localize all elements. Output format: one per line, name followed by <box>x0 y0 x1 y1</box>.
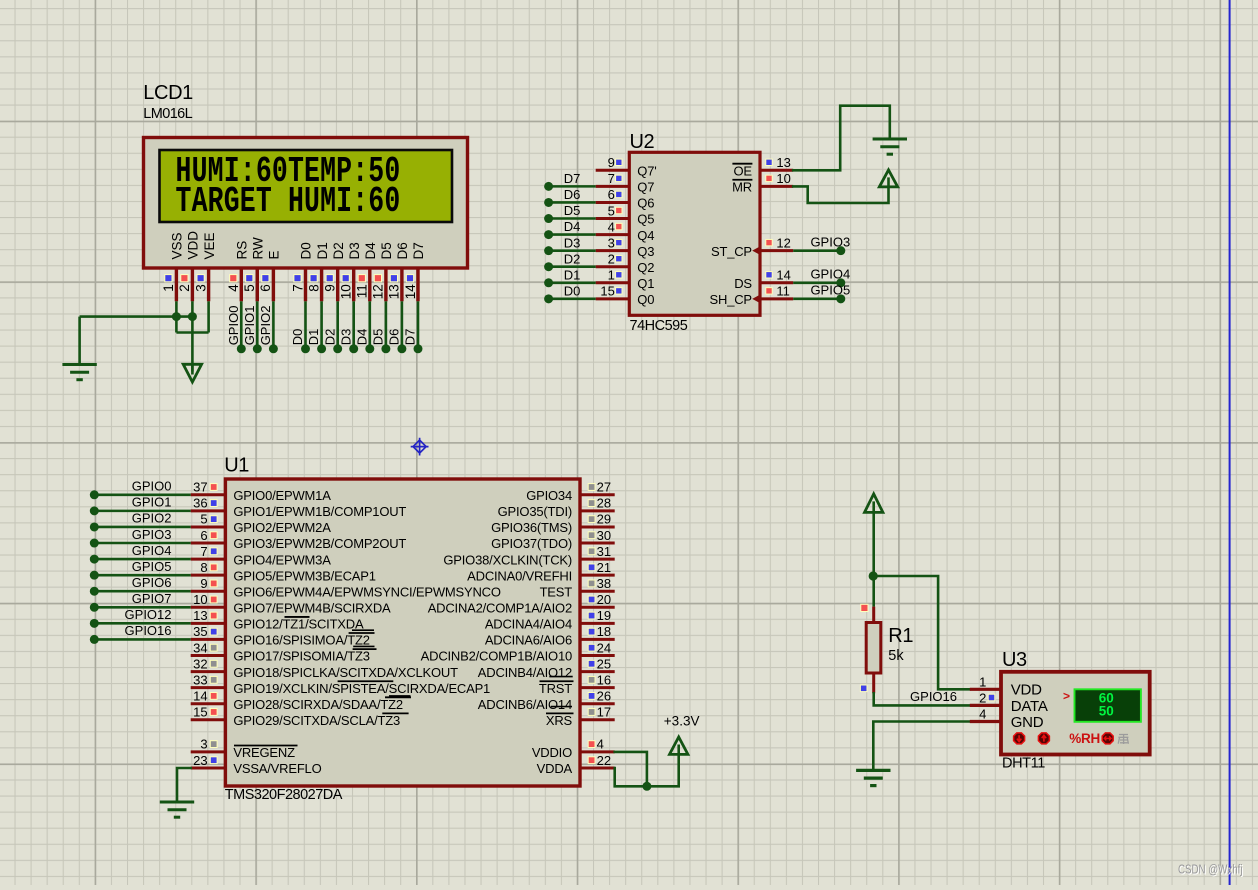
svg-text:>: > <box>1063 689 1070 703</box>
LCD1 pin 9 indicator square <box>326 275 333 282</box>
ground symbol (U2 OE) <box>873 138 907 141</box>
wire end dot D4 <box>544 230 553 239</box>
wire LCD1 VDD pin2 down to power arrow <box>191 301 194 371</box>
wire end dot D3 <box>544 246 553 255</box>
wire end dot GPIO0 <box>90 490 99 499</box>
svg-text:SH_CP: SH_CP <box>710 292 752 307</box>
svg-text:28: 28 <box>597 496 611 511</box>
U1 overline echo mark <box>353 645 374 647</box>
wire LCD1 VSS pin1 down <box>175 301 178 332</box>
svg-text:D1: D1 <box>315 242 330 259</box>
U2 pin 6 (Q6) stub <box>596 201 630 204</box>
svg-text:Q4: Q4 <box>637 228 654 243</box>
U2 pin 5 indicator square <box>616 207 622 213</box>
LCD1 pin 3 indicator square <box>197 275 204 282</box>
svg-text:10: 10 <box>339 284 354 299</box>
svg-text:13: 13 <box>387 284 402 299</box>
U1 pin 5 (GPIO2/EPWM2A) stub <box>191 525 226 528</box>
wire end dot D6 <box>544 198 553 207</box>
svg-text:GPIO1: GPIO1 <box>132 495 172 510</box>
LCD1 screen text line 1 <box>176 153 401 193</box>
U2 pin 13 indicator square <box>766 159 772 165</box>
LCD1 pin 10 indicator square <box>342 275 349 282</box>
wire power to R1 <box>872 512 875 576</box>
svg-text:ADCINB2/COMP1B/AIO10: ADCINB2/COMP1B/AIO10 <box>421 649 572 664</box>
svg-text:22: 22 <box>597 753 611 768</box>
U1 pin 22 (VDDA) stub <box>580 766 615 769</box>
wire D2 to U2 <box>549 265 596 268</box>
U1 pin 26 (ADCINB6/AIO14) stub <box>580 702 615 705</box>
svg-text:GPIO3: GPIO3 <box>132 527 172 542</box>
svg-text:GPIO29/SCITXDA/SCLA/TZ3: GPIO29/SCITXDA/SCLA/TZ3 <box>233 713 400 728</box>
svg-text:RW: RW <box>251 237 266 260</box>
U1 pin 14 (GPIO28/SCIRXDA/SDAA/TZ2) stub <box>191 702 226 705</box>
U1 overline echo mark <box>389 695 411 697</box>
svg-text:GPIO3/EPWM2B/COMP2OUT: GPIO3/EPWM2B/COMP2OUT <box>233 536 406 551</box>
U2 pin 3 indicator square <box>616 239 622 245</box>
svg-text:26: 26 <box>597 689 611 704</box>
svg-text:6: 6 <box>258 284 273 292</box>
svg-text:VDDA: VDDA <box>537 761 573 776</box>
U2 pin 15 indicator square <box>616 288 622 294</box>
U2 pin 7 indicator square <box>616 175 622 181</box>
svg-text:TMS320F28027DA: TMS320F28027DA <box>225 787 343 803</box>
wire from LCD1 pin 4 <box>240 301 243 349</box>
U1 pin 28 (GPIO35(TDI)) stub <box>580 509 615 512</box>
U1 pin 27 (GPIO34) stub <box>580 493 615 496</box>
svg-text:3: 3 <box>608 235 615 250</box>
U1 pin 37 (GPIO0/EPWM1A) stub <box>191 493 226 496</box>
svg-text:TARGET HUMI:60: TARGET HUMI:60 <box>176 183 401 223</box>
U1 pin 10 (GPIO7/EPWM4B/SCIRXDA) stub <box>191 606 226 609</box>
LCD1 pin 6 (E) stub <box>272 268 275 301</box>
U3 button down <box>1014 733 1025 744</box>
svg-text:20: 20 <box>597 592 611 607</box>
U2 pin 9 (Q7') stub <box>596 169 630 172</box>
U1 pin 13 indicator square <box>210 612 217 619</box>
U1 pin 38 indicator square <box>588 580 595 587</box>
svg-text:D7: D7 <box>411 242 426 259</box>
U1 pin 9 indicator square <box>210 580 217 587</box>
wire GPIO12 to U1 <box>94 622 190 625</box>
wire end dot GPIO2 <box>90 522 99 531</box>
svg-text:DATA: DATA <box>1011 698 1048 715</box>
svg-text:ST_CP: ST_CP <box>711 244 752 259</box>
svg-text:GPIO1: GPIO1 <box>242 306 257 346</box>
LCD1 pin 1 (VSS) stub <box>175 268 178 301</box>
wire GPIO7 to U1 <box>94 606 190 609</box>
svg-text:1: 1 <box>608 268 615 283</box>
svg-text:MR: MR <box>732 180 752 195</box>
svg-text:31: 31 <box>597 544 611 559</box>
U1 pin 18 indicator square <box>588 628 595 635</box>
svg-text:GPIO2: GPIO2 <box>258 306 273 346</box>
power arrow down (LCD VDD) <box>183 364 201 382</box>
svg-text:CSDN @Wxhfj: CSDN @Wxhfj <box>1178 863 1243 877</box>
svg-text:XRS: XRS <box>546 713 573 728</box>
svg-text:9: 9 <box>200 576 207 591</box>
R1 top pin indicator square <box>861 604 868 611</box>
wire end dot GPIO16 <box>90 635 99 644</box>
junction dot VDD net <box>642 782 651 791</box>
U1 pin 36 indicator square <box>210 500 217 507</box>
wire from LCD1 pin 6 <box>272 301 275 349</box>
svg-text:VEE: VEE <box>202 232 217 259</box>
wire GPIO5 to U1 <box>94 574 190 577</box>
U1 pin 34 (GPIO17/SPISOMIA/TZ3) stub <box>191 654 226 657</box>
wire end dot GPIO1 <box>90 506 99 515</box>
svg-text:+3.3V: +3.3V <box>664 713 700 728</box>
wire D5 to U2 <box>549 217 596 220</box>
U1 pin 9 (GPIO6/EPWM4A/EPWMSYNCI/EPWMSYNCO) stub <box>191 590 226 593</box>
wire D0 to U2 <box>549 298 596 301</box>
svg-text:E: E <box>267 250 282 259</box>
svg-text:GPIO4/EPWM3A: GPIO4/EPWM3A <box>233 552 331 567</box>
svg-text:GPIO16/SPISIMOA/TZ2: GPIO16/SPISIMOA/TZ2 <box>233 633 369 648</box>
U2 pin 10 indicator square <box>766 175 772 181</box>
svg-text:GPIO4: GPIO4 <box>132 543 172 558</box>
LCD1 pin 3 (VEE) stub <box>207 268 210 301</box>
U1 pin 24 (ADCINB2/COMP1B/AIO10) stub <box>580 654 615 657</box>
wire end dot D1 <box>317 344 326 353</box>
svg-text:4: 4 <box>608 219 615 234</box>
svg-text:9: 9 <box>323 284 338 292</box>
wire GPIO16 to U1 <box>94 638 190 641</box>
wire GPIO3 from U2 ST_CP <box>793 249 841 252</box>
U1 body <box>225 479 580 786</box>
wire U2 OE to ground <box>793 106 890 171</box>
wire U2 MR to power <box>793 186 888 203</box>
svg-text:Q6: Q6 <box>637 196 654 211</box>
svg-text:Q7': Q7' <box>637 164 656 179</box>
U1 pin 26 indicator square <box>588 693 595 700</box>
svg-text:D3: D3 <box>564 235 581 250</box>
svg-text:VDD: VDD <box>1011 682 1042 699</box>
U1 overline echo mark <box>549 676 572 678</box>
svg-text:3: 3 <box>193 284 208 292</box>
U1 pin 31 indicator square <box>588 548 595 555</box>
wire GPIO1 to U1 <box>94 510 190 513</box>
wire end dot GPIO6 <box>90 587 99 596</box>
LCD1 pin 6 indicator square <box>262 275 269 282</box>
ground symbol (DHT11) <box>856 769 890 772</box>
svg-text:21: 21 <box>597 560 611 575</box>
U2 pin 10 (MR) stub <box>760 185 793 188</box>
svg-text:ADCINA4/AIO4: ADCINA4/AIO4 <box>485 617 572 632</box>
svg-text:GPIO16: GPIO16 <box>125 623 172 638</box>
LCD1 pin 2 indicator square <box>181 275 188 282</box>
U1 pin 6 indicator square <box>210 532 217 539</box>
svg-text:D4: D4 <box>354 329 369 346</box>
svg-text:37: 37 <box>193 480 207 495</box>
U1 pin 17 indicator square <box>588 709 595 716</box>
U1 pin 19 (ADCINA4/AIO4) stub <box>580 622 615 625</box>
wire end dot D0 <box>544 294 553 303</box>
svg-text:GPIO0: GPIO0 <box>226 306 241 346</box>
U1 pin 28 indicator square <box>588 500 595 507</box>
U1 pin 16 indicator square <box>588 676 595 683</box>
U1 pin 35 indicator square <box>210 628 217 635</box>
U1 TZ3 overline <box>353 648 377 650</box>
U1 pin 15 (GPIO29/SCITXDA/SCLA/TZ3) stub <box>191 718 226 721</box>
U1 pin 7 (GPIO4/EPWM3A) stub <box>191 558 226 561</box>
resistor R1 body <box>866 623 881 674</box>
svg-text:8: 8 <box>306 284 321 292</box>
U1 pin 13 (GPIO12/TZ1/SCITXDA) stub <box>191 622 226 625</box>
svg-text:4: 4 <box>597 737 604 752</box>
svg-text:13: 13 <box>193 608 207 623</box>
svg-text:6: 6 <box>608 187 615 202</box>
U1 pin 20 (ADCINA2/COMP1A/AIO2) stub <box>580 606 615 609</box>
U2 pin 7 (Q7) stub <box>596 185 630 188</box>
svg-text:11: 11 <box>776 284 790 299</box>
svg-text:34: 34 <box>193 640 207 655</box>
svg-text:36: 36 <box>193 496 207 511</box>
U1 pin 29 (GPIO36(TMS)) stub <box>580 525 615 528</box>
U1 pin 3 (VREGENZ) stub <box>191 750 226 753</box>
LCD1 pin 2 (VDD) stub <box>191 268 194 301</box>
U1 pin 21 indicator square <box>588 564 595 571</box>
U2 pin ST_CP clock arrow <box>752 246 761 255</box>
svg-text:%RH: %RH <box>1069 731 1100 746</box>
sheet border (blue) <box>1229 0 1231 885</box>
wire ground stem <box>78 317 81 365</box>
svg-text:12: 12 <box>371 284 386 299</box>
U3 pin 2 (DATA) stub <box>970 704 1001 707</box>
U3 pin 2 indicator square <box>988 694 995 701</box>
svg-text:D5: D5 <box>371 329 386 346</box>
U2 pin 12 (ST_CP) stub <box>760 249 793 252</box>
svg-text:GPIO34: GPIO34 <box>526 488 572 503</box>
U2 pin 1 indicator square <box>616 272 622 278</box>
U1 pin 27 indicator square <box>588 484 595 491</box>
U1 pin 4 (VDDIO) stub <box>580 750 615 753</box>
wire LCD1 VEE pin3 down <box>207 301 210 332</box>
U1 pin 20 indicator square <box>588 596 595 603</box>
wire DHT11 GND net <box>873 722 970 770</box>
U1 overline echo mark <box>551 706 572 708</box>
svg-text:D6: D6 <box>395 242 410 259</box>
svg-text:14: 14 <box>776 268 790 283</box>
wire from LCD1 pin 8 <box>320 301 323 349</box>
U1 pin 6 (GPIO3/EPWM2B/COMP2OUT) stub <box>191 542 226 545</box>
wire D1 to U2 <box>549 281 596 284</box>
origin marker (blue crosshair) <box>411 438 429 456</box>
svg-text:5: 5 <box>200 512 207 527</box>
wire GPIO5 from U2 SH_CP <box>793 298 841 301</box>
wire end dot GPIO5 <box>90 571 99 580</box>
svg-text:GPIO35(TDI): GPIO35(TDI) <box>498 504 572 519</box>
svg-text:ADCINB4/AIO12: ADCINB4/AIO12 <box>478 665 572 680</box>
svg-text:D0: D0 <box>299 242 314 259</box>
svg-text:5k: 5k <box>888 648 904 664</box>
U1 pin 32 (GPIO18/SPICLKA/SCITXDA/XCLKOUT) stub <box>191 670 226 673</box>
svg-text:VDD: VDD <box>186 231 201 260</box>
svg-text:6: 6 <box>200 528 207 543</box>
svg-text:19: 19 <box>597 608 611 623</box>
svg-text:GPIO36(TMS): GPIO36(TMS) <box>491 520 572 535</box>
U1 pin 3 indicator square <box>210 741 217 748</box>
svg-text:11: 11 <box>355 284 370 298</box>
wire U1 VDDA <box>615 768 679 786</box>
svg-text:D5: D5 <box>379 242 394 259</box>
svg-text:9: 9 <box>608 155 615 170</box>
svg-text:ADCINB6/AIO14: ADCINB6/AIO14 <box>478 697 572 712</box>
wire GPIO4 to U1 <box>94 558 190 561</box>
svg-text:LM016L: LM016L <box>143 106 192 122</box>
U1 pin 16 (TRST) stub <box>580 686 615 689</box>
U1 pin 25 indicator square <box>588 660 595 667</box>
wire end dot GPIO4 <box>836 278 845 287</box>
power arrow up (U2 MR) <box>879 170 897 187</box>
svg-text:16: 16 <box>597 672 611 687</box>
svg-text:GPIO5: GPIO5 <box>132 559 172 574</box>
wire end dot GPIO5 <box>836 294 845 303</box>
LCD1 pin 5 (RW) stub <box>256 268 259 301</box>
U2 pin MR overline <box>732 179 752 181</box>
svg-text:VREGENZ: VREGENZ <box>233 745 295 760</box>
svg-text:D3: D3 <box>338 329 353 346</box>
U2 pin 14 indicator square <box>766 272 772 278</box>
U1 pin 14 indicator square <box>210 693 217 700</box>
wire end dot D1 <box>544 278 553 287</box>
svg-text:5: 5 <box>608 203 615 218</box>
wire GPIO2 to U1 <box>94 526 190 529</box>
U1 pin 8 (GPIO5/EPWM3B/ECAP1) stub <box>191 574 226 577</box>
svg-text:Q3: Q3 <box>637 244 654 259</box>
svg-text:GPIO12: GPIO12 <box>125 607 172 622</box>
wire GPIO3 to U1 <box>94 542 190 545</box>
U2 pin 13 (OE) stub <box>760 169 793 172</box>
U2 pin 15 (Q0) stub <box>596 297 630 300</box>
junction dot R1/VDD net <box>869 571 878 580</box>
svg-text:GPIO12/TZ1/SCITXDA: GPIO12/TZ1/SCITXDA <box>233 617 364 632</box>
wire from LCD1 pin 9 <box>336 301 339 349</box>
power arrow up (R1 top) <box>865 494 883 513</box>
U1 pin 37 indicator square <box>210 484 217 491</box>
U1 pin 33 (GPIO19/XCLKIN/SPISTEA/SCIRXDA/ECAP1) stub <box>191 686 226 689</box>
U1 pin 4 indicator square <box>588 741 595 748</box>
svg-text:30: 30 <box>597 528 611 543</box>
U2 pin 14 (DS) stub <box>760 281 793 284</box>
svg-text:GPIO37(TDO): GPIO37(TDO) <box>491 536 572 551</box>
wire end dot D6 <box>397 344 406 353</box>
svg-text:GPIO5/EPWM3B/ECAP1: GPIO5/EPWM3B/ECAP1 <box>233 568 375 583</box>
U1 pin 36 (GPIO1/EPWM1B/COMP1OUT) stub <box>191 509 226 512</box>
svg-text:D1: D1 <box>564 267 581 282</box>
svg-text:D6: D6 <box>564 187 581 202</box>
svg-text:GPIO3: GPIO3 <box>810 234 850 249</box>
U1 pin 10 indicator square <box>210 596 217 603</box>
svg-text:Q5: Q5 <box>637 212 654 227</box>
U1 pin 23 indicator square <box>210 757 217 764</box>
wire D4 to U2 <box>549 233 596 236</box>
svg-text:GPIO2: GPIO2 <box>132 511 172 526</box>
wire end dot GPIO2 <box>269 344 278 353</box>
svg-text:10: 10 <box>193 592 207 607</box>
LCD1 pin 1 indicator square <box>165 275 172 282</box>
U3 button up <box>1038 733 1049 744</box>
U2 pin 2 indicator square <box>616 256 622 262</box>
U1 pin 30 (GPIO37(TDO)) stub <box>580 542 615 545</box>
svg-text:LCD1: LCD1 <box>143 82 193 104</box>
U1 pin 31 (GPIO38/XCLKIN(TCK)) stub <box>580 558 615 561</box>
svg-text:Q2: Q2 <box>637 260 654 275</box>
svg-text:14: 14 <box>403 284 418 300</box>
svg-text:13: 13 <box>776 155 790 170</box>
svg-text:D7: D7 <box>403 329 418 346</box>
LCD1 pin 13 (D6) stub <box>400 268 403 301</box>
ground symbol (U1 VSSA) <box>160 801 194 804</box>
svg-text:50: 50 <box>1099 704 1114 719</box>
wire end dot D2 <box>333 344 342 353</box>
svg-text:12: 12 <box>776 235 790 250</box>
U1 pin 18 (ADCINA6/AIO6) stub <box>580 638 615 641</box>
U2 pin 3 (Q3) stub <box>596 249 630 252</box>
svg-text:U3: U3 <box>1002 649 1027 671</box>
svg-text:D7: D7 <box>564 171 581 186</box>
svg-text:2: 2 <box>979 690 986 705</box>
svg-text:2: 2 <box>177 284 192 292</box>
wire +3.3V riser <box>677 754 680 786</box>
U2 pin SH_CP clock arrow <box>752 294 761 303</box>
LCD1 pin 7 (D0) stub <box>304 268 307 301</box>
svg-text:38: 38 <box>597 576 611 591</box>
U3 button mode <box>1102 733 1113 744</box>
wire D6 to U2 <box>549 201 596 204</box>
wire end dot D0 <box>301 344 310 353</box>
LCD1 pin 9 (D2) stub <box>336 268 339 301</box>
svg-text:GPIO7: GPIO7 <box>132 591 172 606</box>
U1 pin 29 indicator square <box>588 516 595 523</box>
svg-text:17: 17 <box>597 705 611 720</box>
wire end dot D7 <box>544 182 553 191</box>
U1 pin 30 indicator square <box>588 532 595 539</box>
U1 pin 21 (ADCINA0/VREFHI) stub <box>580 574 615 577</box>
svg-text:D3: D3 <box>347 242 362 259</box>
wire from LCD1 pin 14 <box>417 301 420 349</box>
LCD1 pin 10 (D3) stub <box>352 268 355 301</box>
svg-text:29: 29 <box>597 512 611 527</box>
U3 gray glyph <box>1118 735 1128 745</box>
wire U1 VDDIO <box>615 752 647 786</box>
svg-text:D5: D5 <box>564 203 581 218</box>
LCD1 screen text line 2 <box>176 183 401 223</box>
svg-text:D2: D2 <box>322 329 337 346</box>
svg-text:27: 27 <box>597 480 611 495</box>
U1 TZ3 overline <box>382 712 408 714</box>
svg-text:18: 18 <box>597 624 611 639</box>
wire from LCD1 pin 12 <box>385 301 388 349</box>
LCD1 pin 14 indicator square <box>406 275 413 282</box>
wire end dot D4 <box>365 344 374 353</box>
U2 pin OE overline <box>732 163 752 165</box>
wire R1 top lead <box>872 576 875 607</box>
LCD1 pin 13 indicator square <box>390 275 397 282</box>
wire end dot D5 <box>381 344 390 353</box>
svg-text:U1: U1 <box>224 455 249 477</box>
svg-text:25: 25 <box>597 656 611 671</box>
U1 pin 7 indicator square <box>210 548 217 555</box>
svg-text:D1: D1 <box>306 329 321 346</box>
U1 pin 8 indicator square <box>210 564 217 571</box>
svg-text:D4: D4 <box>363 242 378 260</box>
U1 pin 33 indicator square <box>210 676 217 683</box>
LCD display LCD1 body <box>144 138 468 269</box>
svg-text:D4: D4 <box>564 219 581 234</box>
U1 TZ2 overline <box>349 632 375 634</box>
LCD1 pin 12 indicator square <box>374 275 381 282</box>
